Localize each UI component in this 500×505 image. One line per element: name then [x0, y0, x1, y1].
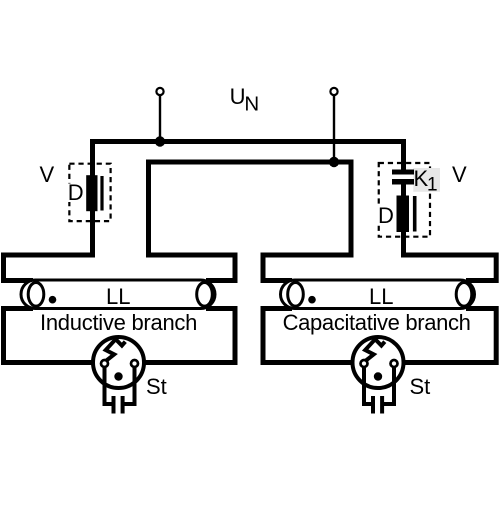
wire bus A (top horizontal): [93, 139, 404, 144]
capacitor K1 top plate: [392, 170, 414, 175]
starter contact left: [101, 360, 108, 367]
wire left choke drop (bus A to left branch bus): [90, 139, 95, 258]
starter base legs: [105, 364, 135, 404]
terminal T2 (mains, right): [330, 88, 337, 95]
lamp LL1 (left fluorescent tube): [21, 280, 215, 309]
label K1 gray backing: [413, 168, 440, 192]
choke D1 winding (left, solid rect): [86, 175, 97, 211]
terminal T1 (mains, left): [156, 88, 163, 95]
dashed box V (left ballast enclosure): [69, 164, 110, 221]
label K1: [414, 166, 438, 196]
svg-text:St: St: [410, 374, 431, 399]
node junction dot T1/bus A: [155, 136, 165, 146]
starter can circle: [93, 337, 144, 388]
choke D2 winding (right, solid rect): [397, 196, 410, 233]
wire left branch top-right segment (bus B to lamp right electrode): [146, 255, 235, 281]
starter pin left: [112, 396, 116, 414]
wire right branch top-left segment (bus B to lamp left electrode): [263, 255, 354, 281]
starter dot: [114, 372, 122, 380]
wire left branch bottom-left (lamp to starter S1): [4, 309, 105, 363]
starter bimetal switch zigzag: [105, 339, 126, 362]
choke D2 core line: [413, 196, 417, 232]
choke D1 core line: [100, 176, 103, 211]
lamp LL2 (right fluorescent tube): [281, 280, 475, 309]
wire terminal T1 to bus A: [159, 96, 161, 142]
starter base bottom brackets: [103, 402, 137, 406]
wire right drop: bus A to capacitor K1: [401, 139, 406, 171]
svg-text:N: N: [244, 93, 259, 116]
capacitor K1 bottom plate: [392, 179, 414, 185]
starter pin right: [121, 396, 125, 414]
wire right branch top-right segment (choke to lamp right electrode): [401, 255, 496, 281]
svg-text:St: St: [146, 374, 167, 399]
label D (right choke) white backing: [375, 206, 396, 225]
starter S2 (right, glow starter): [353, 337, 404, 414]
wire left branch top-left segment (choke to lamp left electrode): [4, 255, 96, 281]
svg-text:LL: LL: [369, 284, 393, 309]
svg-text:Capacitative branch: Capacitative branch: [283, 310, 471, 335]
svg-text:D: D: [68, 180, 84, 205]
label UN (mains voltage): [230, 84, 260, 116]
svg-text:V: V: [452, 162, 467, 187]
svg-text:LL: LL: [106, 284, 130, 309]
label D (left choke) white backing: [64, 184, 85, 203]
svg-text:D: D: [378, 203, 394, 228]
svg-text:1: 1: [427, 175, 438, 196]
wire terminal T2 to bus B: [333, 96, 335, 163]
svg-text:Inductive branch: Inductive branch: [40, 310, 197, 335]
node junction dot T2/bus B: [329, 157, 339, 167]
starter S1 (left, glow starter): [93, 337, 144, 414]
svg-text:U: U: [230, 84, 246, 109]
wire bus B (middle rectangle: top edge and side edges): [149, 162, 352, 258]
wire right branch bottom-right (starter S2 to lamp): [394, 309, 496, 363]
starter contact right: [131, 360, 138, 367]
svg-text:V: V: [40, 162, 55, 187]
wire right branch bottom-left (lamp to starter S2): [263, 309, 364, 363]
wire left branch bottom-right (starter S1 to lamp): [135, 309, 236, 363]
wire K1 to choke D2 and down to right branch bus: [401, 184, 406, 258]
dashed box V (right ballast enclosure): [379, 163, 430, 237]
